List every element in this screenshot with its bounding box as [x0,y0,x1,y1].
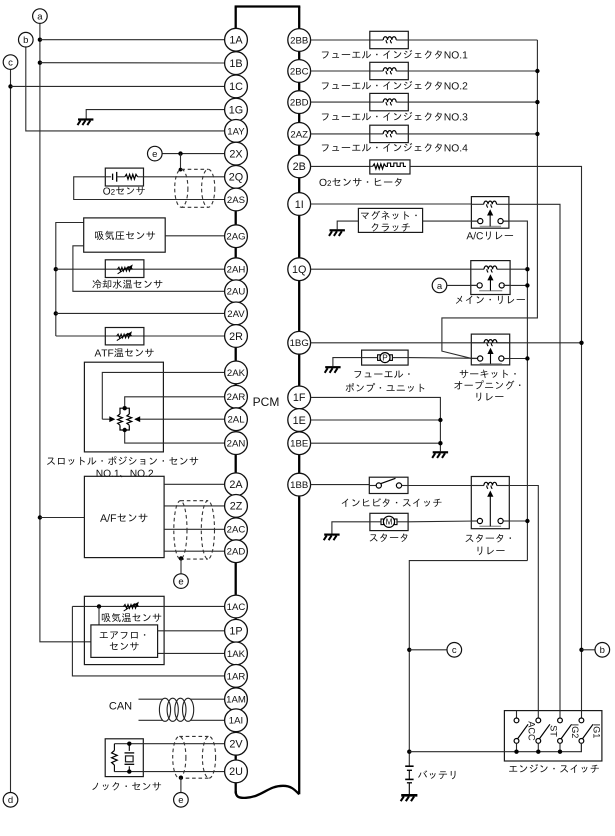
svg-text:1Q: 1Q [292,264,306,276]
wire net-c/d vertical rail [10,69,12,792]
ground PCM 1F/1E/1BE [433,451,448,453]
wire 2R through ATF thermistor [56,335,225,337]
svg-text:d: d [8,795,13,806]
wire 2AL to wiper2 [135,418,224,420]
svg-text:1AY: 1AY [227,126,245,137]
connector circle b [19,32,34,47]
PCM pin 2AN [225,432,248,455]
wire injector NO.2 to supply bus [408,70,537,72]
wire 1Q to main relay coil [311,268,471,270]
svg-text:e: e [178,577,183,588]
fuel injector NO.3 box [370,93,409,110]
wire shield drain stub O2 [180,154,182,171]
PCM pin 2X [225,142,248,165]
node 1E ground rail [438,418,442,422]
starter motor [381,519,384,525]
injector supply bus [442,40,538,358]
node battery top [407,750,411,754]
circuit opening relay [471,334,509,365]
PCM connector bus right rail [298,7,300,795]
node shield drain A/F [179,556,183,560]
PCM pin 1C [225,75,248,98]
svg-text:1A: 1A [229,35,243,47]
svg-text:1BE: 1BE [290,439,308,450]
node c junction to 1C [8,84,12,88]
node a junction to 1A [38,38,42,42]
PCM pin 1Q [288,258,311,281]
starter relay plunger arrow [489,494,491,526]
PCM bus bottom wave [236,786,300,798]
svg-text:c: c [8,58,13,69]
PCM pin 1G [225,98,248,121]
svg-text:2Z: 2Z [230,501,243,513]
svg-text:2Q: 2Q [229,172,243,184]
svg-text:2V: 2V [229,739,243,751]
PCM pin 1AR [225,665,248,688]
engine switch IG1 contacts [579,718,584,723]
node injector bus 2BD [535,100,539,104]
wire 1I to A/C relay coil [311,203,472,205]
PCM pin 2BC [288,60,311,83]
wire shield drain to e [180,559,182,574]
wire O2 sensor to 2Q [144,176,225,178]
CAN twisted pair symbol [159,698,170,721]
ground fuel pump [325,366,340,368]
PCM pin 2AR [225,385,248,408]
wire 2A [164,483,225,485]
label O2 sensor heater [319,178,401,187]
PCM pin 1I [288,193,311,216]
wire 1BE [311,442,441,444]
O2 sensor box [105,168,143,186]
wire 2AR to top node [125,397,225,408]
wire starter motor to ground [370,521,381,523]
PCM pin 2BD [288,91,311,114]
wire 2AG [165,235,224,237]
wire A/C coil to IG2 [509,204,560,718]
node MAP common to 2AV [54,311,58,315]
ground magnet clutch [330,229,345,231]
wire 1P [158,630,225,632]
wire A/F feed from net-a [40,517,85,519]
node 1BE ground rail [438,441,442,445]
connector circle d [3,793,18,808]
wire 1B [40,62,225,64]
svg-text:2A: 2A [229,479,243,491]
node shield top O2 [179,168,183,172]
thermistor intake air temp [124,604,139,608]
svg-text:1AM: 1AM [226,695,246,706]
label inhibitor switch [342,498,442,507]
label engine switch [509,764,599,773]
node shield drain knock [179,776,183,780]
svg-text:2BB: 2BB [290,35,308,46]
wire O2 heater to IG net [410,166,582,718]
svg-text:2AK: 2AK [227,368,246,379]
thermistor coolant temp [117,267,132,271]
wire inhibitor to starter relay coil [408,485,471,487]
label O2 sensor [103,187,145,195]
label fuel injector NO.4 [322,143,468,152]
PCM pin 2AZ [288,122,311,145]
PCM pin 1B [225,52,248,75]
wire fuel pump to COR contact [393,357,409,359]
svg-text:1BG: 1BG [290,338,309,349]
node knock bottom [127,769,131,773]
label airflow sensor line2 [110,642,139,650]
PCM pin 1AC [225,595,248,618]
wire 1C [11,85,225,87]
PCM pin 1P [225,619,248,642]
wire 2AD [164,550,225,552]
knock sensor resistor [113,744,115,772]
wire 1E [311,419,441,421]
starter relay box [471,477,509,529]
fuel injector NO.2 coil [370,70,383,72]
knock sensor box [105,739,143,777]
A/F sensor box [84,476,164,557]
wire shield drain to e (knock) [180,778,182,793]
wire main contact right to battery bus [503,284,527,286]
svg-text:1C: 1C [229,81,243,93]
label fuel injector NO.2 [322,81,467,90]
wire COR contact right to battery bus [503,358,527,360]
svg-text:2AH: 2AH [227,265,246,276]
PCM pin 1AY [225,119,248,142]
wire 2BB to injector NO.1 [311,39,370,41]
svg-text:2AS: 2AS [227,195,245,206]
label COR line3 [476,393,503,401]
label throttle position sensor line1 [47,456,198,465]
engine switch ACC contacts [516,711,518,718]
svg-text:2AD: 2AD [227,547,246,558]
O2 sensor cell and resistor [105,176,111,178]
circle e shield drain (O2 sensor) [148,146,163,161]
wire MAP top-left feed [56,223,84,337]
svg-text:PCM: PCM [253,395,280,409]
magnet clutch box [358,208,422,232]
svg-text:2BD: 2BD [290,98,309,109]
svg-text:2AC: 2AC [227,525,246,536]
PCM pin 2AS [225,188,248,211]
airflow sensor outer box [84,596,164,664]
label throttle position sensor line2 [97,470,153,478]
PCM pin 2AH [225,258,248,281]
wire 1AC through IAT thermistor [72,605,224,607]
PCM pin 1AK [225,642,248,665]
wire 1G with ground stub [86,110,224,119]
svg-text:P: P [382,354,388,363]
node a junction to A/F sensor [38,515,42,519]
svg-text:1G: 1G [229,104,243,116]
A/C relay [471,197,509,229]
svg-text:IG1: IG1 [592,724,602,739]
label coolant temp sensor [92,280,162,289]
label starter relay line1 [465,534,511,542]
svg-text:M: M [386,518,393,527]
fuel injector NO.4 box [370,125,409,142]
svg-text:2AR: 2AR [227,392,246,403]
engine switch common bus [409,743,581,751]
wire net-a vertical rail [40,23,91,641]
svg-text:e: e [152,149,157,160]
svg-text:ST: ST [549,725,559,737]
PCM pin 2V [225,732,248,755]
wire O2 sensor low side loop to 2AS [74,177,225,200]
O2 heater element symbol [370,165,373,167]
wire 1AR sensor ground [72,606,224,676]
knock piezo element [128,744,130,751]
wire A/C contact to battery bus [504,221,528,560]
label A/F sensor [100,514,147,523]
label COR line2 [454,380,520,389]
svg-text:b: b [600,645,605,656]
fuel injector NO.3 coil [370,101,383,103]
arrow wiper TPS1 [102,418,111,420]
label starter [370,533,408,541]
wire 2AU [73,246,225,291]
node IAT to MAF [97,604,101,608]
PCM pin 1BG [288,331,311,354]
circle e shield drain (A/F) [174,574,189,589]
main relay [471,261,510,295]
ground for 1G [78,118,93,120]
engine switch box [504,711,602,761]
wire injector NO.4 to supply bus [408,133,537,135]
node 1BG joins IG net [579,341,583,345]
svg-text:c: c [452,645,457,656]
wire 2AZ to injector NO.4 [311,133,370,135]
wire 1BG to COR coil and IG net [311,342,582,344]
battery symbol [405,765,413,767]
inhibitor switch contacts [369,485,376,487]
label fuel injector NO.1 [322,50,467,59]
svg-text:e: e [178,795,183,806]
wire to circle c [409,649,447,651]
svg-text:a: a [37,12,43,23]
engine switch ST contacts [536,718,541,723]
PCM pin 2AC [225,518,248,541]
wire fuel pump left to ground [362,357,378,359]
label fuel injector NO.3 [322,112,468,121]
svg-text:1P: 1P [229,626,242,638]
wire 1BB to inhibitor switch [311,484,370,486]
node IG net to circle b [579,648,583,652]
engine switch IG2 contacts [558,718,563,723]
wire 2AK to wiper1 [102,372,224,419]
label knock sensor [92,782,161,791]
node TPS top [123,406,127,410]
circle e shield drain (knock) [174,793,189,808]
svg-text:1AK: 1AK [227,649,246,660]
circle a main relay output [432,278,447,293]
wire battery bus lower [409,561,527,767]
fuel pump motor [378,355,381,361]
PCM pin 2AV [225,302,248,325]
svg-text:1BB: 1BB [290,480,308,491]
wire to circle b [582,649,596,651]
TPS potentiometer pair [120,408,129,414]
throttle position sensor box [84,362,163,452]
node a junction to 1B [38,61,42,65]
wire 2AC [164,528,225,530]
label intake air temp sensor [102,613,161,622]
PCM bus top bracket [235,5,301,7]
PCM pin 1AM [225,688,248,711]
PCM pin 1A [225,28,248,51]
label airflow sensor line1 [100,632,146,640]
label ATF temp sensor [94,348,153,357]
node knock top [127,742,131,746]
node COR contact battery bus [525,356,529,360]
starter relay coil [471,485,484,487]
connector circle a [33,9,48,24]
node engine switch ACC [514,750,518,754]
svg-text:IG2: IG2 [570,724,580,739]
svg-text:1AC: 1AC [227,602,246,613]
label main relay [456,296,525,304]
label fuel pump line1 [354,370,409,378]
svg-text:a: a [437,281,443,292]
svg-text:2U: 2U [229,766,243,778]
PCM pin 2AD [225,540,248,563]
PCM pin 1F [288,386,311,409]
wire 2B to heater [311,165,370,167]
starter relay contacts [471,520,477,522]
wire 2V [114,743,224,745]
node main contact battery bus [525,283,529,287]
wire starter motor to relay contact [397,521,408,523]
PCM pin 2AL [225,408,248,431]
svg-text:1B: 1B [229,58,242,70]
fuel injector NO.1 coil [370,39,383,41]
wire circle-a to main relay contact [447,284,477,286]
label intake pressure sensor [95,231,155,240]
svg-text:1AR: 1AR [227,671,246,682]
node battery to circle c [407,648,411,652]
label starter relay line2 [478,547,505,555]
wire starter relay contact to battery bus [503,520,527,522]
label magnet clutch line1 [361,211,417,220]
svg-text:ACC: ACC [527,721,537,741]
node engine switch ST [536,750,540,754]
wire CAN low right [191,719,225,721]
wire 2X [162,153,225,155]
wire CAN low [139,719,164,721]
svg-text:CAN: CAN [109,700,132,712]
PCM pin 1AI [225,709,248,732]
wire 2Z [164,505,225,507]
svg-text:2X: 2X [229,148,242,160]
PCM pin 1BE [288,432,311,455]
svg-text:2B: 2B [293,161,306,173]
PCM pin 2AK [225,361,248,384]
wire CAN high right [191,698,225,700]
label COR line1 [460,370,516,379]
wire 1AK [158,652,225,654]
wire 2U [114,771,224,773]
coolant temp sensor box [105,260,144,278]
wire IAT node down to MAF box [98,606,100,625]
connector circle b (IG) [595,643,610,658]
label fuel pump line2 [346,383,425,392]
PCM pin 2R [225,325,248,348]
intake pressure sensor box [84,218,166,252]
wire 2BD to injector NO.3 [311,101,370,103]
node TPS bottom [123,428,127,432]
wire 2AN from bottom node [125,430,225,443]
wire magnet clutch to ground [423,220,478,222]
ground starter motor [324,533,339,535]
svg-text:1E: 1E [293,415,306,427]
PCM pin 2AU [225,280,248,303]
ground battery [401,794,417,797]
ATF temp sensor box [105,328,144,345]
svg-text:2AN: 2AN [227,439,246,450]
node injector bus 2AZ [535,132,539,136]
PCM pin 2U [225,760,248,783]
svg-text:2AU: 2AU [227,287,246,298]
wire magnet clutch left [337,221,358,229]
svg-text:2R: 2R [229,331,243,343]
PCM pin 2BB [288,29,311,52]
wire 2BC to injector NO.2 [311,70,370,72]
svg-text:2AV: 2AV [227,309,245,320]
svg-text:1AI: 1AI [229,716,243,727]
connector circle c (battery) [447,643,462,658]
fuel injector NO.2 box [370,62,409,79]
label magnet clutch line2 [372,223,410,231]
shield O2 sensor cable [175,169,188,207]
node MAP common to 2AH [54,267,58,271]
shield knock sensor cable [173,736,186,778]
node injector bus 2BC [535,69,539,73]
svg-text:1I: 1I [295,199,304,211]
node main coil battery bus [525,267,529,271]
wire 2AV [56,312,225,314]
inhibitor switch box [369,477,408,493]
PCM connector bus left rail [235,7,237,794]
label battery [418,770,455,779]
wire starter relay coil to ST [509,486,538,719]
wire 2AH through coolant thermistor [56,268,225,270]
PCM pin 2Q [225,166,248,189]
PCM pin 2A [225,473,248,496]
node engine switch IG2 [558,750,562,754]
connector circle c [3,55,18,70]
airflow sensor inner box [91,625,158,658]
wire 1A [40,39,225,41]
fuel injector NO.4 coil [370,133,383,135]
wire net-b to pin 1AY [26,47,225,131]
PCM pin 2Z [225,495,248,518]
fuel injector NO.1 box [370,31,409,48]
shield A/F sensor cable [174,501,187,559]
wire injector NO.1 to supply bus [408,39,537,41]
wire main coil to battery bus [510,268,527,270]
PCM pin 2AG [225,225,248,248]
wire 1F [311,397,441,451]
svg-text:2AL: 2AL [227,415,245,426]
PCM pin 2B [288,155,311,178]
PCM pin 1BB [288,473,311,496]
label A/C relay [466,231,513,239]
svg-text:1F: 1F [293,392,306,404]
starter motor box [370,513,408,530]
thermistor ATF temp [117,334,132,338]
svg-text:2AZ: 2AZ [290,129,308,140]
svg-text:b: b [23,35,28,46]
